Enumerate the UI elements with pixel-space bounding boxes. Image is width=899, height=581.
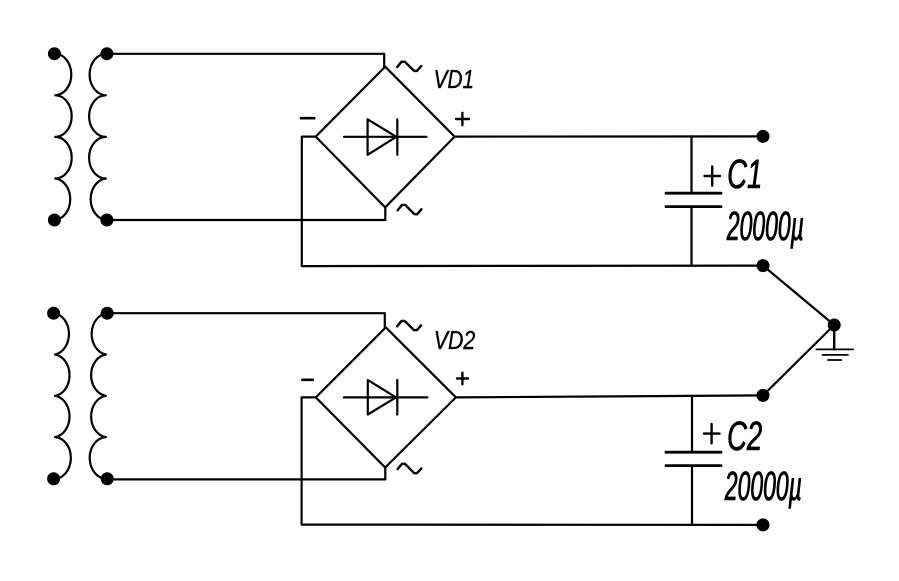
wire top common to ground junction [763, 266, 834, 325]
VD1 internal diode triangle [368, 119, 397, 155]
wire VD2 plus corner to positive rail [456, 395, 763, 397]
bridge rectifier VD2 diamond [316, 327, 456, 467]
C2 plus polarity sign [704, 424, 720, 443]
capacitor C1 bottom plate [666, 205, 721, 208]
capacitor C2 bottom plate [666, 464, 721, 467]
wire ground junction to bottom plus node [763, 325, 834, 395]
capacitor C2 bottom lead [691, 466, 693, 525]
transformer T2 primary winding [54, 313, 71, 479]
T2 primary top terminal dot [47, 307, 60, 320]
ground symbol [833, 325, 835, 349]
C1 label [729, 159, 760, 188]
transformer T1 secondary winding [89, 54, 107, 220]
positive output node dot bottom [757, 389, 770, 402]
C2 label [729, 421, 762, 450]
VD2 internal diode line [344, 396, 428, 398]
capacitor C2 top plate [666, 451, 721, 454]
T1 secondary top terminal dot [100, 47, 113, 60]
transformer T1 primary winding [54, 54, 71, 220]
VD2 plus sign [457, 373, 468, 385]
VD1 label [435, 70, 472, 88]
VD1 top AC ~ symbol [397, 62, 421, 71]
VD1 internal diode cathode bar [396, 119, 398, 155]
ground junction dot [828, 319, 841, 332]
VD2 minus sign [302, 378, 313, 381]
VD2 internal diode triangle [368, 380, 396, 415]
VD1 minus sign [301, 117, 314, 120]
T2 secondary top terminal dot [101, 307, 114, 320]
capacitor C2 top lead [691, 396, 693, 452]
VD2 top AC ~ symbol [397, 321, 421, 330]
T1 primary bottom terminal dot [48, 214, 61, 227]
bridge rectifier VD1 diamond [316, 67, 455, 208]
T2 secondary bottom terminal dot [101, 472, 114, 485]
wire VD1 minus corner to negative rail [302, 137, 763, 267]
T1 primary top terminal dot [48, 47, 61, 60]
C1 value 20000u [727, 211, 803, 248]
wire VD1 plus corner to positive rail [455, 135, 763, 137]
T2 primary bottom terminal dot [47, 472, 60, 485]
C1 plus polarity sign [705, 166, 721, 185]
VD2 label [436, 331, 475, 349]
capacitor C1 bottom lead [690, 207, 692, 266]
transformer T2 secondary winding [90, 313, 108, 479]
capacitor C1 top plate [666, 192, 721, 195]
positive output node dot top [757, 130, 770, 143]
VD1 bottom AC ~ symbol [398, 205, 422, 214]
capacitor C1 top lead [690, 136, 692, 193]
VD2 internal diode cathode bar [396, 380, 398, 415]
bottom common node dot [757, 518, 770, 531]
common node dot top section [757, 259, 770, 272]
wire T2 secondary bottom to VD2 bottom ~ corner [107, 468, 385, 480]
VD1 internal diode line [344, 136, 427, 138]
C2 value 20000u [725, 471, 801, 508]
T1 secondary bottom terminal dot [100, 214, 113, 227]
wire T1 secondary top to VD1 top ~ corner [107, 54, 384, 67]
VD2 bottom AC ~ symbol [398, 464, 422, 473]
wire T2 secondary top to VD2 top ~ corner [107, 313, 385, 327]
VD1 plus sign [456, 113, 469, 125]
wire T1 secondary bottom to VD1 bottom ~ corner [107, 207, 385, 220]
wire VD2 minus corner to negative rail [302, 397, 763, 525]
